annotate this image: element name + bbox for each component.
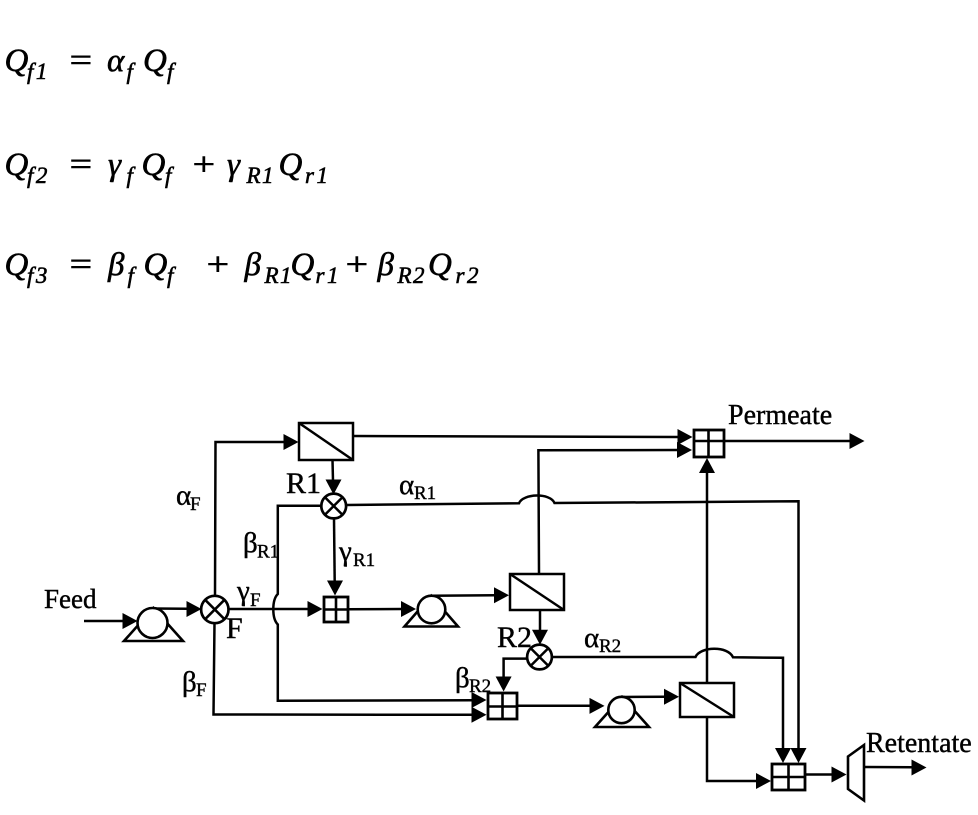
expander valve — [848, 745, 864, 801]
svg-text:R1: R1 — [353, 550, 375, 571]
wire membrane M2 permeate up and into mixer JP — [538, 442, 692, 574]
node R2 splitter — [527, 645, 552, 670]
wire mixer J3 to pump3 — [517, 698, 604, 714]
svg-text:R1: R1 — [286, 467, 321, 500]
wire betaR1: node R1 left, down with hop, into mixer J3 — [273, 506, 486, 708]
svg-text:F: F — [190, 494, 201, 515]
label Retentate — [866, 728, 972, 759]
wire alphaR1: node R1 right with hop, down into mixer JR — [347, 496, 807, 763]
equation 2: Qf2 = gamma_f Qf + gamma_R1 Qr1 — [5, 147, 331, 188]
svg-text:γ: γ — [227, 147, 241, 183]
label R1 — [286, 467, 321, 500]
node F splitter — [201, 596, 228, 623]
label R2 — [497, 621, 532, 654]
svg-text:f: f — [167, 263, 177, 288]
membrane module M1 — [299, 423, 353, 460]
svg-text:f: f — [128, 263, 138, 288]
svg-text:F: F — [196, 680, 207, 701]
svg-text:+: + — [190, 147, 217, 183]
label alphaF — [176, 480, 201, 516]
svg-text:β: β — [243, 527, 258, 559]
svg-text:α: α — [399, 469, 414, 501]
wire pump1 to node F — [152, 601, 202, 617]
wire membrane M1 permeate to mixer JP — [353, 429, 693, 445]
svg-text:Q: Q — [291, 247, 315, 283]
wire pump3 to membrane M3 — [621, 689, 679, 705]
membrane module M3 — [680, 683, 734, 717]
label gammaR1 — [338, 536, 375, 572]
svg-text:f3: f3 — [27, 263, 50, 288]
wire membrane M1 retentate down to node R1 — [326, 460, 342, 495]
wire membrane M3 permeate up into mixer JP — [699, 458, 715, 683]
pump P2 — [405, 596, 459, 627]
svg-text:Q: Q — [5, 247, 29, 283]
wire retentate outlet — [865, 760, 927, 776]
mixer J3 — [488, 693, 517, 719]
node R1 splitter — [321, 494, 346, 519]
wire permeate outlet — [725, 433, 865, 449]
svg-text:β: β — [455, 662, 470, 694]
svg-text:F: F — [250, 590, 261, 611]
svg-text:R1: R1 — [264, 263, 294, 288]
wire betaF: node F down and into mixer J3 — [214, 623, 487, 723]
svg-text:β: β — [244, 247, 262, 283]
svg-text:f2: f2 — [27, 163, 50, 188]
svg-text:=: = — [67, 147, 94, 183]
wire alphaF: node F up and into membrane M1 — [215, 434, 299, 597]
label Feed — [44, 584, 97, 614]
mixer JP (permeate) — [694, 430, 724, 457]
label Permeate — [728, 400, 832, 431]
svg-text:f: f — [127, 59, 137, 84]
svg-text:=: = — [67, 43, 94, 79]
wire mixer J2 to pump2 — [348, 601, 416, 617]
svg-text:+: + — [204, 247, 231, 283]
svg-text:Q: Q — [143, 43, 167, 79]
svg-text:R2: R2 — [599, 636, 621, 657]
svg-text:Q: Q — [279, 147, 303, 183]
svg-text:R1: R1 — [257, 542, 279, 563]
svg-text:γ: γ — [108, 147, 122, 183]
svg-text:β: β — [107, 247, 125, 283]
label gammaF — [236, 575, 261, 611]
mixer J2 — [324, 597, 348, 622]
svg-text:Permeate: Permeate — [728, 400, 832, 431]
pump P3 — [595, 697, 649, 727]
svg-text:γ: γ — [338, 536, 352, 568]
wire membrane M3 retentate down and into mixer JR — [707, 717, 771, 789]
svg-text:Feed: Feed — [44, 584, 97, 614]
svg-text:=: = — [67, 247, 94, 283]
wire betaR2: node R2 left, down into mixer J3 — [496, 659, 528, 692]
wire feed inlet — [84, 613, 138, 629]
label betaR1 — [243, 527, 279, 563]
wire alphaR2: node R2 right with hop, down into mixer JR — [552, 649, 791, 763]
svg-text:f: f — [167, 59, 177, 84]
svg-text:R2: R2 — [469, 676, 491, 697]
wire membrane M2 retentate down to node R2 — [532, 610, 548, 645]
equation 3: Qf3 = beta_f Qf + beta_R1 Qr1 + beta_R2 Qr2 — [5, 247, 481, 288]
svg-text:α: α — [176, 480, 191, 512]
label F — [226, 612, 243, 645]
label alphaR2 — [584, 622, 621, 657]
svg-text:r2: r2 — [456, 263, 481, 288]
pump P1 — [124, 608, 183, 641]
svg-text:α: α — [584, 622, 599, 654]
svg-text:R2: R2 — [497, 621, 532, 654]
svg-text:Q: Q — [5, 147, 29, 183]
label betaF — [182, 666, 207, 701]
svg-text:F: F — [226, 612, 243, 645]
label alphaR1 — [399, 469, 436, 504]
equation 1: Qf1 = alpha_f Qf — [5, 43, 178, 84]
svg-text:r1: r1 — [316, 263, 341, 288]
wire mixer JR to expander — [806, 767, 847, 783]
svg-text:Q: Q — [144, 247, 168, 283]
svg-text:β: β — [182, 666, 197, 698]
svg-text:R1: R1 — [414, 483, 436, 504]
wire pump2 to membrane M2 — [431, 587, 509, 603]
svg-text:Retentate: Retentate — [866, 728, 972, 759]
svg-text:+: + — [343, 247, 370, 283]
mixer JR (retentate) — [772, 764, 805, 790]
svg-text:β: β — [377, 247, 395, 283]
svg-text:R2: R2 — [397, 263, 427, 288]
svg-text:f: f — [127, 163, 137, 188]
label betaR2 — [455, 662, 491, 697]
wire gammaR1: node R1 down into mixer J2 — [327, 519, 343, 596]
svg-text:r1: r1 — [305, 163, 330, 188]
svg-text:Q: Q — [5, 43, 29, 79]
svg-text:R1: R1 — [246, 163, 276, 188]
membrane module M2 — [510, 574, 564, 610]
svg-text:f: f — [165, 163, 175, 188]
svg-text:Q: Q — [428, 247, 452, 283]
svg-text:γ: γ — [236, 575, 250, 607]
svg-text:f1: f1 — [27, 59, 50, 84]
wire gammaF: node F right into mixer J2 — [229, 601, 323, 617]
svg-text:α: α — [107, 43, 125, 79]
svg-text:Q: Q — [142, 147, 166, 183]
